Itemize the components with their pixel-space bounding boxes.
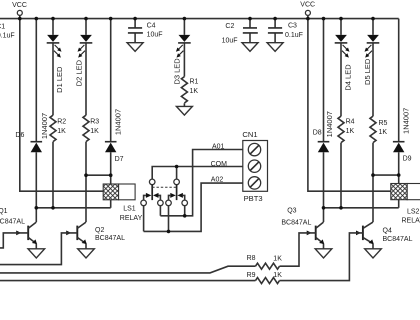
wire D9 column — [398, 19, 400, 184]
svg-text:1K: 1K — [57, 128, 66, 135]
svg-text:LS1: LS1 — [123, 205, 136, 212]
wire node Q1 collector rail — [36, 207, 110, 209]
wire D7 column — [110, 19, 112, 184]
wire A02 net — [144, 183, 243, 231]
svg-text:1K: 1K — [90, 128, 99, 135]
wire R9 input — [0, 280, 256, 282]
svg-text:1N4007: 1N4007 — [114, 109, 123, 135]
transistor Q1 BC847AL — [0, 208, 37, 249]
ground C2 — [242, 43, 258, 52]
svg-text:D1 LED: D1 LED — [55, 66, 64, 93]
wire D6 column — [35, 19, 37, 222]
resistor R1 1K — [181, 77, 198, 103]
svg-text:Q3: Q3 — [287, 208, 296, 215]
capacitor C2 10uF — [222, 19, 258, 45]
wire D1 column — [52, 19, 54, 208]
resistor R8 1K — [247, 255, 283, 269]
svg-text:VCC: VCC — [300, 1, 315, 8]
ground Q4 — [365, 249, 382, 258]
wire D8 column — [323, 19, 325, 222]
relay coil LS1 — [103, 184, 142, 222]
svg-text:R8: R8 — [247, 255, 256, 262]
relay contact K2 common circle — [174, 179, 180, 185]
transistor Q2 BC847AL — [66, 222, 125, 249]
wire node Q4 collector to relay top — [373, 174, 399, 176]
wire VCC drop to LS2 coil — [308, 19, 391, 192]
wire VCC drop to LS1 coil — [20, 19, 103, 192]
svg-text:1K: 1K — [379, 129, 388, 136]
resistor R5 1K — [370, 116, 388, 142]
diode D7 1N4007 — [105, 109, 124, 163]
svg-text:D4 LED: D4 LED — [343, 64, 352, 91]
svg-text:BC847AL: BC847AL — [281, 219, 311, 226]
wire VCC rail — [0, 18, 399, 20]
svg-text:Q2: Q2 — [95, 227, 104, 234]
svg-text:1N4007: 1N4007 — [325, 111, 334, 137]
svg-text:VCC: VCC — [12, 2, 27, 9]
transistor Q3 BC847AL — [281, 208, 324, 249]
relay contact K2 arm — [176, 185, 178, 200]
resistor R3 1K — [83, 115, 99, 141]
svg-text:1N4007: 1N4007 — [401, 108, 410, 134]
svg-text:1K: 1K — [273, 256, 282, 263]
svg-text:BC847AL: BC847AL — [0, 218, 25, 225]
svg-text:COM: COM — [211, 161, 228, 168]
svg-text:R3: R3 — [90, 118, 99, 125]
LED D4 — [335, 35, 353, 91]
svg-text:1K: 1K — [346, 128, 355, 135]
svg-text:C3: C3 — [288, 22, 297, 29]
capacitor C3 0.1uF — [268, 19, 303, 43]
wire A01 net — [160, 150, 242, 216]
svg-text:BC847AL: BC847AL — [95, 235, 125, 242]
svg-text:CN1: CN1 — [242, 130, 257, 139]
LED D5 — [363, 35, 380, 85]
wire LS2 coil bottom — [398, 200, 400, 208]
LED D3 — [172, 35, 190, 85]
wire D3 column — [183, 19, 185, 107]
wire LS1 coil bottom — [110, 200, 112, 208]
svg-text:10uF: 10uF — [147, 31, 163, 38]
ground R1 — [176, 106, 192, 115]
svg-text:RELAY: RELAY — [120, 215, 143, 222]
LED D1 — [47, 35, 64, 93]
svg-text:1K: 1K — [273, 272, 282, 279]
transistor Q4 BC847AL — [356, 222, 413, 249]
svg-text:BC847AL: BC847AL — [383, 236, 413, 243]
resistor R4 1K — [338, 116, 355, 142]
wire R8 to Q3 base — [280, 233, 316, 266]
relay contact K1 common circle — [149, 179, 155, 185]
svg-text:D5 LED: D5 LED — [363, 58, 372, 85]
relay contact K1 throws — [141, 193, 163, 206]
wire node Q2 collector to relay top — [86, 174, 111, 176]
svg-text:A02: A02 — [211, 177, 224, 184]
svg-text:0.1uF: 0.1uF — [285, 32, 303, 39]
wire Q1 base input — [0, 233, 28, 248]
relay contact K1 arm — [151, 185, 153, 200]
svg-text:R2: R2 — [57, 118, 66, 125]
svg-text:R1: R1 — [190, 78, 199, 85]
wire R8 input — [0, 266, 256, 273]
svg-text:1N4007: 1N4007 — [40, 113, 49, 139]
svg-text:Q1: Q1 — [0, 208, 8, 215]
svg-text:D3 LED: D3 LED — [172, 58, 181, 85]
LED D2 — [75, 35, 93, 86]
capacitor C1 label — [0, 24, 15, 40]
svg-text:LS2: LS2 — [407, 208, 420, 215]
relay coil LS2 — [391, 184, 420, 225]
wire D5 column — [372, 19, 374, 222]
resistor R2 1K — [50, 115, 66, 141]
capacitor C4 10uF — [128, 19, 163, 43]
svg-text:10uF: 10uF — [222, 38, 238, 45]
diode D6 1N4007 — [15, 113, 49, 152]
svg-text:1K: 1K — [190, 88, 199, 95]
wire node Q3 collector rail — [324, 207, 399, 209]
svg-text:D2 LED: D2 LED — [75, 59, 84, 86]
wire D4 column — [340, 19, 342, 208]
svg-text:PBT3: PBT3 — [244, 194, 263, 203]
ground C3 — [267, 43, 283, 52]
wire COM net — [152, 167, 243, 180]
svg-text:RELAY: RELAY — [402, 218, 420, 225]
svg-text:0.1uF: 0.1uF — [0, 33, 15, 40]
svg-text:D9: D9 — [403, 156, 412, 163]
VCC symbol left — [12, 2, 27, 18]
diode D9 1N4007 — [393, 108, 412, 163]
svg-text:D8: D8 — [313, 129, 322, 136]
ground C4 — [127, 43, 143, 52]
svg-text:Q4: Q4 — [383, 227, 392, 234]
svg-text:D7: D7 — [115, 156, 124, 163]
connector CN1 PBT3 — [242, 130, 267, 203]
diode D8 1N4007 — [313, 111, 334, 152]
svg-text:R5: R5 — [379, 120, 388, 127]
svg-text:R4: R4 — [346, 118, 355, 125]
wire D2 column — [85, 19, 87, 222]
svg-text:C1: C1 — [0, 24, 5, 31]
ground Q2 — [78, 249, 95, 258]
mechanical link dashed — [152, 186, 176, 188]
resistor R9 1K — [247, 272, 283, 284]
ground Q1 — [28, 249, 45, 258]
svg-text:D6: D6 — [15, 132, 24, 139]
ground Q3 — [315, 249, 332, 258]
wire Q2 base input — [0, 233, 77, 265]
svg-text:C4: C4 — [147, 23, 156, 30]
svg-text:R9: R9 — [247, 272, 256, 279]
VCC symbol right — [300, 1, 315, 18]
relay contact K2 throws — [166, 193, 188, 206]
wire R9 to Q4 base — [280, 233, 363, 281]
svg-text:A01: A01 — [212, 144, 225, 151]
svg-text:C2: C2 — [225, 23, 234, 30]
